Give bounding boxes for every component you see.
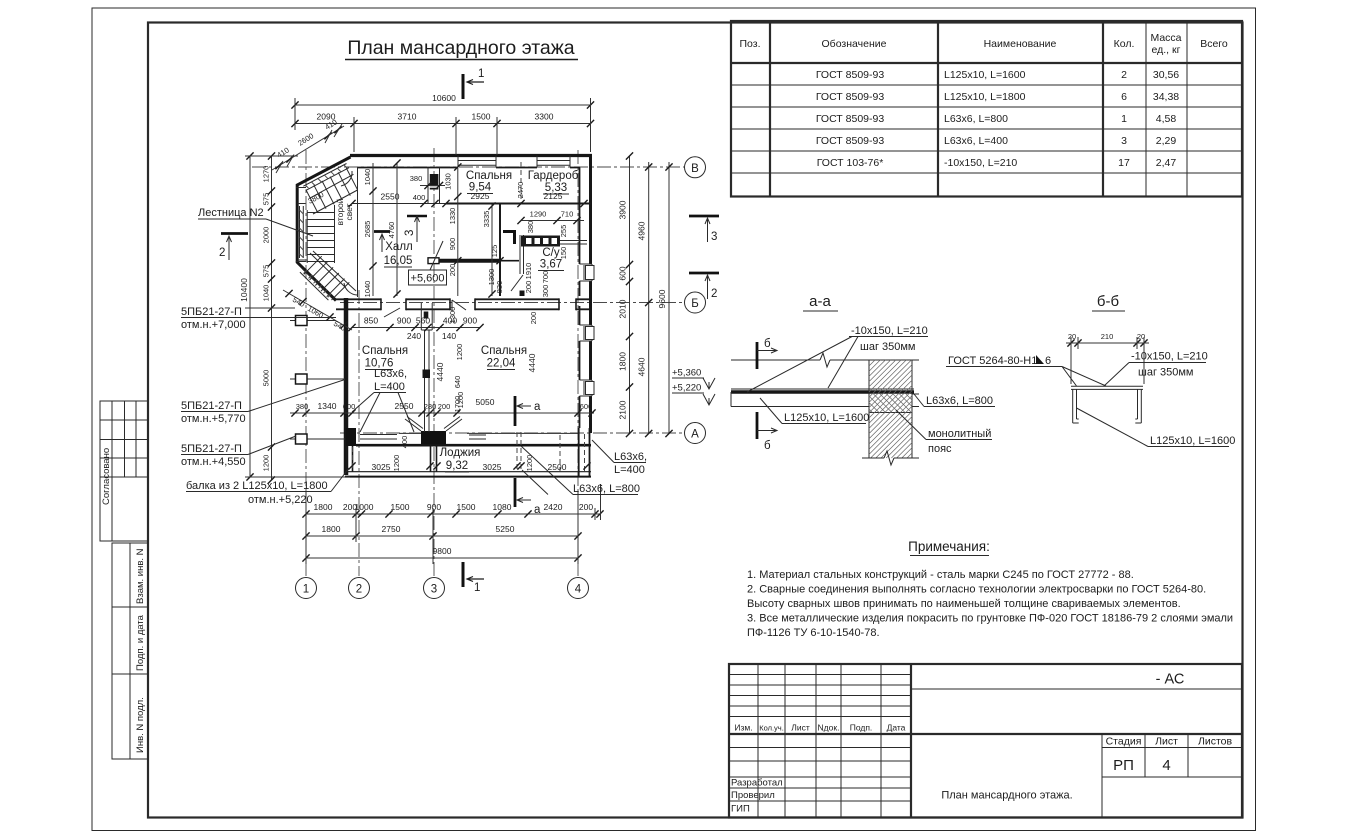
svg-text:2925: 2925 [471,191,490,201]
interior thin walls bedroom/wardrobe [352,203,446,205]
svg-text:отм.н.+5,770: отм.н.+5,770 [181,413,246,425]
svg-text:L63x6, L=800: L63x6, L=800 [944,113,1008,125]
svg-text:900: 900 [427,502,441,512]
hall beam [428,258,439,264]
stairwell east edge [357,168,359,298]
svg-text:2100: 2100 [618,400,628,419]
svg-text:700: 700 [541,271,550,284]
svg-text:1910: 1910 [524,263,533,280]
svg-text:отм.н.+5,220: отм.н.+5,220 [248,494,313,506]
door swings on axis Б wall [384,300,466,317]
svg-text:-10x150, L=210: -10x150, L=210 [1131,351,1208,363]
inner vertical dim lines hall [373,163,492,296]
svg-text:1800: 1800 [314,502,333,512]
svg-text:2750: 2750 [382,524,401,534]
svg-text:200: 200 [524,281,533,294]
north wall outer line [350,154,592,157]
svg-text:а: а [534,401,541,413]
svg-text:900: 900 [448,238,457,251]
svg-text:600: 600 [343,402,356,411]
svg-text:2. Сварные соединения выполнят: 2. Сварные соединения выполнять согласно… [747,584,1206,596]
svg-text:9800: 9800 [433,546,452,556]
svg-text:210: 210 [1101,332,1114,341]
svg-text:пояс: пояс [928,443,952,455]
dim over shaft 380 [420,185,445,187]
svg-text:575: 575 [262,193,271,206]
svg-text:Примечания:: Примечания: [908,539,990,554]
svg-text:830: 830 [495,281,504,294]
svg-text:2,47: 2,47 [1156,157,1177,169]
svg-text:1: 1 [474,582,480,594]
bay outer walls (hollow) [297,157,350,301]
svg-text:L125x10, L=1600: L125x10, L=1600 [784,412,869,424]
interior: shaft on axis 3 top [427,168,429,205]
north wall inner line [358,167,581,169]
svg-text:2: 2 [711,288,717,300]
svg-text:План мансардного этажа.: План мансардного этажа. [941,790,1072,802]
svg-text:Подп.: Подп. [850,723,873,733]
svg-text:ГОСТ 8509-93: ГОСТ 8509-93 [816,91,885,103]
svg-text:17: 17 [1118,157,1130,169]
svg-text:L=400: L=400 [614,464,645,476]
bottom dim row B [306,535,578,537]
svg-text:5000: 5000 [262,370,271,387]
svg-text:ГОСТ 8509-93: ГОСТ 8509-93 [816,113,885,125]
svg-text:300: 300 [541,285,550,298]
svg-text:1300: 1300 [448,307,457,324]
svg-text:1200: 1200 [455,344,464,361]
svg-text:1800: 1800 [322,524,341,534]
svg-text:4960: 4960 [637,221,647,240]
svg-text:710: 710 [561,210,574,219]
svg-text:L63x6, L=800: L63x6, L=800 [573,483,640,495]
central shaft below Б wall [421,303,432,330]
svg-text:L63x6, L=800: L63x6, L=800 [926,395,993,407]
svg-text:Наименование: Наименование [984,38,1057,50]
bedroom top dim row y203 texts [348,200,355,207]
sheet inner frame [148,23,1243,818]
parts table [731,21,1242,197]
svg-text:2685: 2685 [363,221,372,238]
svg-text:1500: 1500 [472,112,491,122]
north windows glazing [458,156,496,168]
svg-text:Халл: Халл [385,241,413,253]
dim row y=413 [290,412,594,414]
svg-text:Спальня: Спальня [362,345,408,357]
steel plate band [731,388,914,390]
svg-text:400: 400 [413,193,426,202]
stair middle flight treads [307,213,334,262]
svg-text:1000: 1000 [355,502,374,512]
svg-text:1: 1 [303,584,309,596]
svg-text:34,38: 34,38 [1153,91,1179,103]
svg-text:Лоджия: Лоджия [440,447,481,459]
svg-text:ГОСТ 5264-80-Н1-: ГОСТ 5264-80-Н1- [948,355,1041,367]
b marks [756,342,759,369]
top dim row 2090/3710/1500/3300 [295,123,591,125]
svg-text:Гардероб: Гардероб [528,170,579,182]
svg-text:2: 2 [1121,69,1127,81]
svg-text:280: 280 [424,402,437,411]
svg-text:Стадия: Стадия [1106,736,1142,748]
svg-text:Согласовано: Согласовано [101,448,112,505]
svg-text:1800: 1800 [618,352,628,371]
svg-text:2: 2 [219,247,225,259]
svg-text:380: 380 [526,221,535,234]
svg-text:3,67: 3,67 [540,259,562,271]
svg-text:600: 600 [618,266,628,280]
diagonal dim over bay top [272,126,344,170]
svg-text:б: б [764,440,771,452]
axis grid lines [305,150,307,576]
svg-text:3: 3 [404,230,416,236]
french door swings at axis А [405,417,462,432]
svg-text:Дата: Дата [887,723,906,733]
svg-text:С/у: С/у [542,247,560,259]
svg-text:а: а [534,504,541,516]
svg-text:125: 125 [490,245,499,258]
svg-text:2500: 2500 [548,462,567,472]
stair upper stringers [310,174,358,214]
svg-text:Б: Б [691,298,699,310]
svg-text:шаг 350мм: шаг 350мм [1138,367,1194,379]
svg-text:1500: 1500 [391,502,410,512]
corner bracket bedroom1 [503,231,516,245]
svg-text:1340: 1340 [318,401,337,411]
svg-text:4: 4 [575,584,582,596]
svg-text:План мансардного этажа: План мансардного этажа [347,37,574,59]
svg-text:560: 560 [416,316,430,326]
svg-text:ГОСТ 8509-93: ГОСТ 8509-93 [816,69,885,81]
svg-text:3025: 3025 [372,462,391,472]
svg-text:3025: 3025 [483,462,502,472]
svg-text:Всего: Всего [1200,38,1228,50]
svg-text:9,32: 9,32 [446,460,468,472]
svg-text:200: 200 [529,312,538,325]
west wall below bay [344,298,349,475]
svg-text:L125x10, L=1600: L125x10, L=1600 [944,69,1026,81]
wall bottom break [862,451,919,465]
svg-text:+5,600: +5,600 [411,273,445,285]
axis bubbles right [685,157,706,444]
loggia walls [347,446,353,472]
svg-text:200: 200 [448,264,457,277]
svg-text:1700: 1700 [453,396,462,413]
svg-text:Лист: Лист [1155,736,1178,748]
thin wall between bedrooms [425,330,430,432]
svg-text:Nдок.: Nдок. [818,723,840,733]
svg-text:ГОСТ 8509-93: ГОСТ 8509-93 [816,135,885,147]
svg-text:Разработал: Разработал [731,778,783,789]
svg-text:6: 6 [1121,91,1127,103]
bottom dim row A [306,513,600,515]
stair lower stringers [310,251,356,291]
svg-text:Спальня: Спальня [466,170,512,182]
svg-text:9600: 9600 [657,289,667,308]
svg-text:2420: 2420 [544,502,563,512]
svg-text:2: 2 [356,584,362,596]
svg-text:1270: 1270 [262,166,271,183]
svg-text:1: 1 [478,68,484,80]
svg-text:1290: 1290 [530,210,547,219]
partition x=500 [499,204,501,296]
svg-text:20: 20 [1068,332,1076,341]
svg-text:200: 200 [438,402,451,411]
svg-text:отм.н.+4,550: отм.н.+4,550 [181,456,246,468]
svg-text:а-а: а-а [809,293,831,310]
svg-text:Листов: Листов [1198,736,1233,748]
svg-text:4,58: 4,58 [1156,113,1177,125]
svg-text:Обозначение: Обозначение [822,38,887,50]
section mark 3 inner [407,215,427,218]
loggia dims [348,462,355,469]
svg-text:22,04: 22,04 [487,358,516,370]
svg-text:10600: 10600 [432,93,456,103]
bottom dim row C [306,557,578,559]
svg-text:Спальня: Спальня [481,345,527,357]
section mark 1 (top) [462,74,465,99]
svg-text:+5,360: +5,360 [672,368,701,379]
east wall inner line [579,168,581,429]
svg-text:Изм.: Изм. [734,723,752,733]
svg-text:4440: 4440 [527,353,537,372]
bathroom west wall + door [520,235,524,274]
stair upper flight treads [306,168,358,213]
svg-text:600: 600 [580,402,593,411]
svg-text:б-б: б-б [1097,293,1119,310]
svg-text:4: 4 [1162,757,1170,774]
svg-text:1040: 1040 [363,281,372,298]
svg-text:РП: РП [1113,757,1134,774]
wardrobe dim 1290/710 [521,220,584,222]
section mark a upper/lower [514,396,517,426]
axis bubbles bottom [296,578,589,599]
svg-text:Подп. и дата: Подп. и дата [135,614,146,671]
top dim row 10600 [295,104,591,106]
svg-text:монолитный: монолитный [928,428,991,440]
stair lower flight treads [304,256,349,300]
channel: top plate + angle legs [1071,386,1143,389]
section mark 2 left [221,232,248,235]
svg-text:L63x6,: L63x6, [614,451,647,463]
svg-text:+5,220: +5,220 [672,383,701,394]
svg-text:-10x150, L=210: -10x150, L=210 [944,157,1017,169]
svg-text:1330: 1330 [448,208,457,225]
svg-text:200: 200 [579,502,593,512]
svg-text:А: А [691,429,699,441]
svg-text:L125x10, L=1800: L125x10, L=1800 [944,91,1026,103]
svg-text:640: 640 [453,376,462,389]
svg-text:Лист: Лист [791,723,810,733]
svg-text:отм.н.+7,000: отм.н.+7,000 [181,319,246,331]
east wall outer line [589,156,592,434]
svg-text:5250: 5250 [496,524,515,534]
svg-text:3: 3 [431,584,437,596]
svg-text:2000: 2000 [262,227,271,244]
svg-text:16,05: 16,05 [384,255,413,267]
svg-text:150: 150 [559,247,568,260]
svg-text:ГИП: ГИП [731,804,750,815]
svg-text:30,56: 30,56 [1153,69,1179,81]
svg-text:1040: 1040 [262,285,271,302]
vent block [521,236,560,247]
svg-text:Взам. инв. N: Взам. инв. N [135,548,146,604]
svg-text:Кол.уч.: Кол.уч. [759,724,784,733]
sidebar box Инв. N подл. [112,674,148,759]
svg-text:3: 3 [1121,135,1127,147]
svg-text:900: 900 [397,316,411,326]
svg-text:3710: 3710 [398,112,417,122]
svg-text:4760: 4760 [387,222,396,239]
svg-text:L125x10, L=1600: L125x10, L=1600 [1150,435,1235,447]
loggia hidden dashes [353,432,561,471]
svg-text:Поз.: Поз. [740,38,761,50]
section mark 1 (bottom) [462,562,465,587]
svg-text:Кол.: Кол. [1114,38,1135,50]
svg-text:4640: 4640 [637,357,647,376]
svg-text:1080: 1080 [493,502,512,512]
svg-text:Высоту сварных швов принимать: Высоту сварных швов принимать по наимень… [747,598,1181,610]
svg-text:4440: 4440 [435,362,445,381]
svg-text:3300: 3300 [535,112,554,122]
section marks right 3 and 2 [689,215,719,218]
bay window strip left wall [300,206,304,258]
svg-text:балка из 2 L125x10, L=1800: балка из 2 L125x10, L=1800 [186,480,328,492]
svg-text:3335: 3335 [482,211,491,228]
svg-text:ПФ-1126 ТУ 6-10-1540-78.: ПФ-1126 ТУ 6-10-1540-78. [747,627,880,639]
title block [729,664,1242,818]
bay window strip lower diagonal [300,269,331,300]
left dim line 10400 [249,156,251,477]
svg-text:Масса: Масса [1150,32,1181,44]
right dim chains [629,156,631,434]
left dim chain [271,156,273,480]
diagonal dim below bay [283,290,352,330]
svg-text:3. Все металлические изделия п: 3. Все металлические изделия покрасить п… [747,613,1233,625]
angle bottom line [731,360,919,458]
svg-text:1: 1 [1121,113,1127,125]
svg-text:L63x6, L=400: L63x6, L=400 [944,135,1008,147]
svg-text:L63x6,: L63x6, [374,368,407,380]
svg-text:400: 400 [400,436,409,449]
svg-text:380: 380 [410,174,423,183]
wall hatch [869,360,912,458]
svg-text:1030: 1030 [444,173,453,190]
wall on axis А with piers [346,428,356,446]
svg-text:10400: 10400 [239,278,249,302]
svg-text:850: 850 [364,316,378,326]
svg-text:6: 6 [1045,355,1051,367]
svg-text:1. Материал стальных конструкц: 1. Материал стальных конструкций - сталь… [747,569,1134,581]
svg-text:5050: 5050 [476,397,495,407]
svg-text:240: 240 [407,331,421,341]
svg-text:5ПБ21-27-П: 5ПБ21-27-П [181,443,242,455]
svg-text:1200: 1200 [392,455,401,472]
svg-text:380: 380 [296,402,309,411]
svg-text:900: 900 [463,316,477,326]
svg-text:5ПБ21-27-П: 5ПБ21-27-П [181,400,242,412]
+5,600 level box [409,270,447,285]
svg-text:ед., кг: ед., кг [1152,44,1181,56]
sidebar box Взам. инв. N [112,543,148,607]
svg-text:ГОСТ 103-76*: ГОСТ 103-76* [817,157,884,169]
section mark 2 inner [374,230,390,233]
east wall windows with sills [580,264,595,396]
svg-text:255: 255 [559,225,568,238]
svg-text:3: 3 [711,231,717,243]
bay window strip upper diagonal [303,164,349,191]
svg-text:L=400: L=400 [374,381,405,393]
svg-text:Проверил: Проверил [731,790,775,801]
svg-text:-10x150, L=210: -10x150, L=210 [851,325,928,337]
stair door arcs [341,171,352,186]
wall on axis Б (hollow) [334,298,589,300]
svg-text:1040: 1040 [363,169,372,186]
svg-text:2,29: 2,29 [1156,135,1177,147]
svg-text:В: В [691,163,699,175]
svg-text:1500: 1500 [457,502,476,512]
svg-text:140: 140 [442,331,456,341]
svg-text:2550: 2550 [381,192,400,202]
svg-text:шаг 350мм: шаг 350мм [860,341,916,353]
dim 20/210/20 [1066,342,1149,344]
svg-text:3900: 3900 [618,200,628,219]
svg-text:575: 575 [262,265,271,278]
slab top line with break [731,353,919,367]
row below Б wall: 850/900/560/400/900 [352,327,480,329]
sidebar box Подп. и дата [112,607,148,674]
svg-text:2470: 2470 [516,182,525,199]
svg-text:2550: 2550 [395,401,414,411]
svg-text:б: б [764,338,771,350]
svg-text:- АС: - АС [1156,672,1185,688]
svg-text:2125: 2125 [544,191,563,201]
svg-text:1200: 1200 [262,455,271,472]
lintel beams over axis 1 [290,316,345,445]
svg-text:2010: 2010 [618,299,628,318]
svg-text:5ПБ21-27-П: 5ПБ21-27-П [181,306,242,318]
svg-text:Инв. N подл.: Инв. N подл. [135,697,146,753]
sidebar mini grid (Согласовано) [100,401,148,541]
svg-text:Лестница N2: Лестница N2 [198,207,264,219]
